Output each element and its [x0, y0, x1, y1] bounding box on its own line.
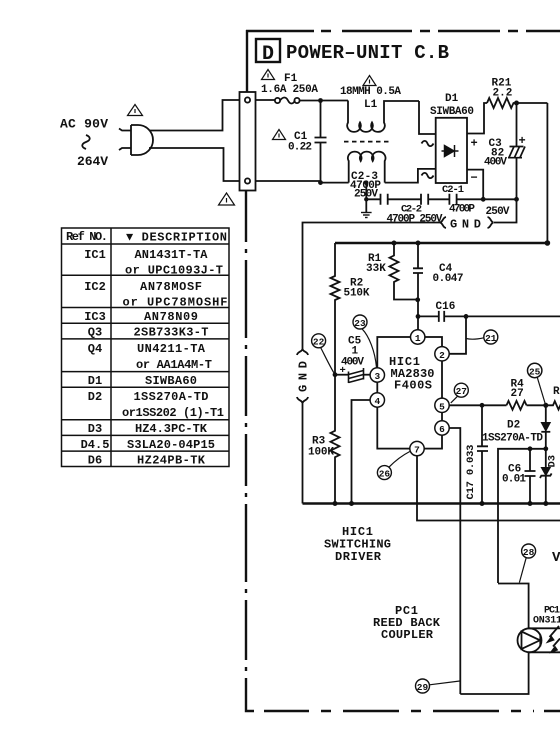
- svg-text:250V: 250V: [486, 206, 510, 218]
- connector pin 22: [312, 334, 326, 348]
- capacitor C1: [320, 101, 322, 138]
- node R4 right junction: [543, 403, 548, 408]
- svg-text:+: +: [340, 365, 346, 377]
- node C1 bottom junction: [318, 180, 323, 185]
- pointer line 27: [451, 396, 458, 403]
- pointer line 28: [519, 558, 526, 583]
- GND net label with braces: [440, 217, 494, 228]
- svg-text:3: 3: [374, 371, 380, 382]
- svg-text:IC1: IC1: [84, 248, 106, 262]
- node junction after fuse: [318, 98, 323, 103]
- pin 3: [370, 368, 384, 382]
- svg-text:28: 28: [523, 547, 535, 558]
- node C6 bus junction: [528, 501, 533, 506]
- svg-text:6: 6: [439, 424, 445, 435]
- svg-text:400V: 400V: [484, 157, 507, 169]
- table header: [66, 230, 227, 245]
- opto top wire to edge: [529, 627, 560, 629]
- svg-text:C17 0.033: C17 0.033: [465, 445, 477, 500]
- capacitor C3 wire upper: [516, 103, 518, 146]
- node C5 junction: [333, 372, 338, 377]
- warning triangle F1: [262, 70, 275, 80]
- frame left chain line: [245, 190, 247, 692]
- node bus right rail junction: [545, 240, 551, 246]
- pointer line 21: [466, 338, 484, 339]
- wire C16 junction down to pin 2: [449, 316, 466, 353]
- svg-text:4700P: 4700P: [449, 204, 475, 216]
- svg-text:2.2: 2.2: [493, 88, 513, 100]
- lower ground bus: [303, 502, 560, 504]
- svg-text:COUPLER: COUPLER: [381, 628, 434, 642]
- svg-text:0.01: 0.01: [502, 474, 526, 486]
- svg-text:29: 29: [417, 682, 429, 693]
- connector pin 27: [454, 383, 468, 397]
- wire R21 to right rail: [517, 102, 548, 104]
- pointer line 26: [389, 452, 410, 468]
- pointer line 29: [430, 681, 460, 685]
- table rows: [81, 248, 228, 468]
- wire D1 plus to R21: [467, 103, 487, 134]
- warning triangle below strip: [219, 193, 235, 205]
- svg-text:510K: 510K: [344, 288, 370, 300]
- svg-text:21: 21: [485, 333, 497, 344]
- node C2 row left junction: [364, 197, 368, 201]
- pointer line 23: [362, 329, 377, 368]
- AC squiggle top-left pin: [422, 141, 434, 146]
- capacitor C3 symbol: [508, 147, 525, 158]
- light arrows: [547, 626, 560, 653]
- resistor R3: [331, 375, 340, 504]
- svg-text:264V: 264V: [77, 154, 108, 169]
- svg-text:IC3: IC3: [84, 310, 106, 324]
- HIC1 box: [377, 337, 442, 449]
- svg-text:D2: D2: [88, 390, 102, 404]
- svg-text:D4.5: D4.5: [81, 438, 110, 452]
- pointer line 25: [537, 378, 545, 404]
- frame top chain line: [246, 30, 560, 32]
- pin 5: [435, 398, 449, 412]
- svg-text:0.047: 0.047: [433, 273, 464, 285]
- svg-text:D3: D3: [547, 455, 559, 468]
- svg-text:1.6A 250A: 1.6A 250A: [261, 84, 318, 96]
- svg-text:R: R: [553, 386, 560, 398]
- svg-text:1SS270A-TD: 1SS270A-TD: [482, 432, 543, 444]
- svg-text:or UPC78MOSHF: or UPC78MOSHF: [123, 296, 228, 310]
- frame bottom chain line: [253, 710, 560, 712]
- capacitor C2-2: [421, 194, 428, 205]
- wire pin 4 to ground bus: [352, 400, 371, 504]
- AC tilde squiggle: [82, 135, 90, 149]
- capacitor C2-1: [449, 194, 456, 205]
- AC squiggle bottom-left pin: [422, 173, 434, 178]
- svg-text:33K: 33K: [366, 263, 386, 275]
- wire strip bottom to L1: [256, 181, 349, 183]
- svg-text:F400S: F400S: [394, 379, 432, 393]
- parts table frame: [62, 228, 230, 467]
- node bus R1 tap: [392, 241, 397, 246]
- node R21 right junction: [514, 101, 519, 106]
- node C16 tap junction: [416, 314, 421, 319]
- svg-text:AC 90V: AC 90V: [60, 117, 108, 132]
- svg-text:IC2: IC2: [84, 280, 106, 294]
- svg-text:or AA1A4M-T: or AA1A4M-T: [136, 358, 212, 372]
- svg-text:27: 27: [511, 388, 524, 400]
- svg-text:or UPC1093J-T: or UPC1093J-T: [125, 264, 223, 278]
- wire pin 6 down: [449, 428, 460, 694]
- capacitor C5 electrolytic: [335, 374, 349, 376]
- wire terminal to fuse: [256, 99, 275, 101]
- svg-text:23: 23: [354, 318, 366, 329]
- terminal circle bottom: [245, 178, 250, 183]
- bridge rectifier D1 box: [436, 118, 467, 183]
- terminal strip TB1: [240, 92, 256, 191]
- svg-text:18MMH 0.5A: 18MMH 0.5A: [340, 86, 401, 98]
- fuse F1: [275, 98, 300, 104]
- svg-text:POWER–UNIT C.B: POWER–UNIT C.B: [286, 42, 449, 64]
- wire down to HIC pin 1: [417, 316, 419, 330]
- node C16 right junction: [464, 314, 469, 319]
- node C2 row C3 junction: [514, 197, 519, 202]
- connector pin 26: [377, 466, 391, 480]
- opto LED bottom lead: [460, 652, 528, 694]
- svg-text:S3LA20-04P15: S3LA20-04P15: [127, 438, 215, 452]
- svg-text:D1: D1: [445, 93, 459, 105]
- svg-text:26: 26: [379, 468, 391, 479]
- vertical GND net label with braces: [297, 349, 308, 403]
- warning triangle L1: [363, 76, 376, 86]
- svg-text:DRIVER: DRIVER: [335, 550, 382, 564]
- chassis ground symbol: [361, 213, 372, 218]
- node D3 bus junction: [543, 501, 548, 506]
- L1 core dashed line: [344, 141, 389, 143]
- node R3 bus junction: [333, 501, 338, 506]
- wire C2 row down to GND label: [494, 199, 517, 222]
- svg-text:2SB733K3-T: 2SB733K3-T: [134, 326, 209, 340]
- connector pin 23: [353, 315, 367, 329]
- resistor R2: [331, 243, 340, 373]
- svg-text:D3: D3: [88, 422, 102, 436]
- svg-text:27: 27: [456, 386, 468, 397]
- terminal circle top: [245, 97, 250, 102]
- svg-text:L1: L1: [364, 99, 378, 111]
- wire GND label to left corner: [303, 223, 441, 350]
- node tap on AC line: [364, 180, 368, 184]
- wire pin 5 row: [449, 404, 546, 406]
- diode symbol inside D1: [442, 145, 459, 157]
- svg-text:1SS270A-TD: 1SS270A-TD: [134, 390, 209, 404]
- wire L1 top to bridge: [419, 101, 436, 134]
- connector pin 29: [416, 679, 430, 693]
- svg-text:2: 2: [439, 350, 445, 361]
- svg-text:D: D: [262, 43, 274, 66]
- pointer line 22: [321, 348, 334, 373]
- right rail down to GND bus: [546, 103, 548, 243]
- resistor R4: [507, 401, 527, 410]
- wire fuse to junction: [300, 100, 349, 102]
- pin 1: [411, 330, 425, 344]
- svg-text:4700P 250V: 4700P 250V: [387, 214, 443, 226]
- svg-text:or1SS202 (1)-T1: or1SS202 (1)-T1: [122, 406, 224, 420]
- svg-text:+: +: [519, 134, 526, 148]
- inductor L1 bottom winding: [348, 152, 386, 183]
- svg-text:1: 1: [415, 333, 421, 344]
- zener diode D3: [545, 449, 547, 468]
- svg-text:SIWBA60: SIWBA60: [430, 106, 474, 118]
- pin 4: [370, 393, 384, 407]
- wire tap from AC line to C2 row: [365, 183, 367, 212]
- svg-text:D6: D6: [88, 454, 102, 468]
- left GND wire lower: [302, 403, 304, 504]
- opto LED diode: [522, 632, 541, 650]
- svg-text:−: −: [471, 171, 478, 185]
- diode D2: [545, 405, 547, 422]
- connector pin 25: [528, 363, 542, 377]
- svg-text:▼ DESCRIPTION: ▼ DESCRIPTION: [126, 231, 227, 245]
- frame bottom corner: [246, 692, 253, 711]
- svg-text:4: 4: [374, 396, 380, 407]
- svg-text:GND: GND: [450, 218, 481, 232]
- svg-text:D1: D1: [88, 374, 102, 388]
- upper supply bus: [335, 242, 547, 244]
- node bus C4 tap: [416, 241, 421, 246]
- resistor R1: [390, 243, 418, 300]
- wire plug to terminal bottom: [149, 148, 240, 181]
- resistor R21: [487, 98, 517, 108]
- node R1 C4 junction: [415, 297, 420, 302]
- AC plug P1: [119, 125, 153, 155]
- capacitor C6: [529, 449, 531, 471]
- pin 6: [435, 421, 449, 435]
- wire pin 7 down and right: [417, 456, 560, 521]
- svg-text:D2: D2: [507, 420, 520, 432]
- node pin4 bus junction: [349, 501, 354, 506]
- capacitor C4: [417, 243, 419, 268]
- svg-text:Q3: Q3: [88, 326, 102, 340]
- wire step to opto LED: [498, 584, 529, 630]
- svg-text:100K: 100K: [308, 447, 334, 459]
- node C2 row bridge junction: [481, 197, 486, 202]
- pin 7: [410, 441, 424, 455]
- svg-text:25: 25: [529, 366, 541, 377]
- svg-text:HZ24PB-TK: HZ24PB-TK: [137, 454, 206, 468]
- node D2 bottom junction: [543, 446, 548, 451]
- inductor L1 top winding: [347, 101, 419, 132]
- node C17 bus junction: [480, 501, 485, 506]
- svg-text:SIWBA60: SIWBA60: [145, 374, 197, 388]
- svg-text:HZ4.3PC-TK: HZ4.3PC-TK: [135, 422, 208, 436]
- svg-text:AN1431T-TA: AN1431T-TA: [135, 248, 209, 262]
- node C6 tap: [528, 446, 533, 451]
- connector pin 21: [484, 330, 498, 344]
- capacitor C2-3: [381, 194, 388, 205]
- svg-text:5: 5: [439, 401, 445, 412]
- warning triangle above plug: [128, 105, 143, 116]
- capacitor C17: [481, 405, 483, 446]
- title box D: [256, 39, 280, 62]
- capacitor C16: [418, 315, 560, 317]
- svg-text:7: 7: [414, 445, 420, 456]
- svg-text:250V: 250V: [354, 189, 378, 201]
- opto LED envelope circle: [518, 628, 542, 652]
- node C17 tap: [480, 403, 485, 408]
- wire plug to terminal top: [150, 100, 240, 131]
- svg-text:22: 22: [313, 337, 325, 348]
- svg-text:AN78MOSF: AN78MOSF: [140, 280, 202, 294]
- connector pin 28: [522, 544, 536, 558]
- svg-text:UN4211-TA: UN4211-TA: [137, 342, 206, 356]
- svg-text:ON311: ON311: [533, 616, 560, 627]
- svg-text:+: +: [471, 137, 478, 151]
- warning triangle C1: [273, 130, 286, 140]
- pin 2: [435, 347, 449, 361]
- capacitor C3 wire lower: [516, 158, 518, 199]
- svg-text:V: V: [552, 550, 560, 566]
- C2 row wire segments: [366, 198, 516, 200]
- svg-text:AN78N09: AN78N09: [144, 310, 198, 324]
- svg-text:GND: GND: [297, 361, 311, 392]
- svg-text:Ref NO.: Ref NO.: [66, 230, 108, 244]
- wire L1 bottom to bridge: [385, 169, 436, 183]
- svg-text:0.22: 0.22: [288, 142, 312, 154]
- svg-text:C16: C16: [436, 301, 456, 313]
- resistor stub to edge: [546, 401, 560, 409]
- svg-text:C2-1: C2-1: [442, 184, 464, 196]
- wire D1 minus down to C2 row: [467, 170, 483, 200]
- opto bottom wire to edge: [529, 651, 560, 653]
- svg-text:Q4: Q4: [88, 342, 102, 356]
- wire C6 top: [498, 449, 546, 583]
- frame left solid segment: [246, 30, 248, 92]
